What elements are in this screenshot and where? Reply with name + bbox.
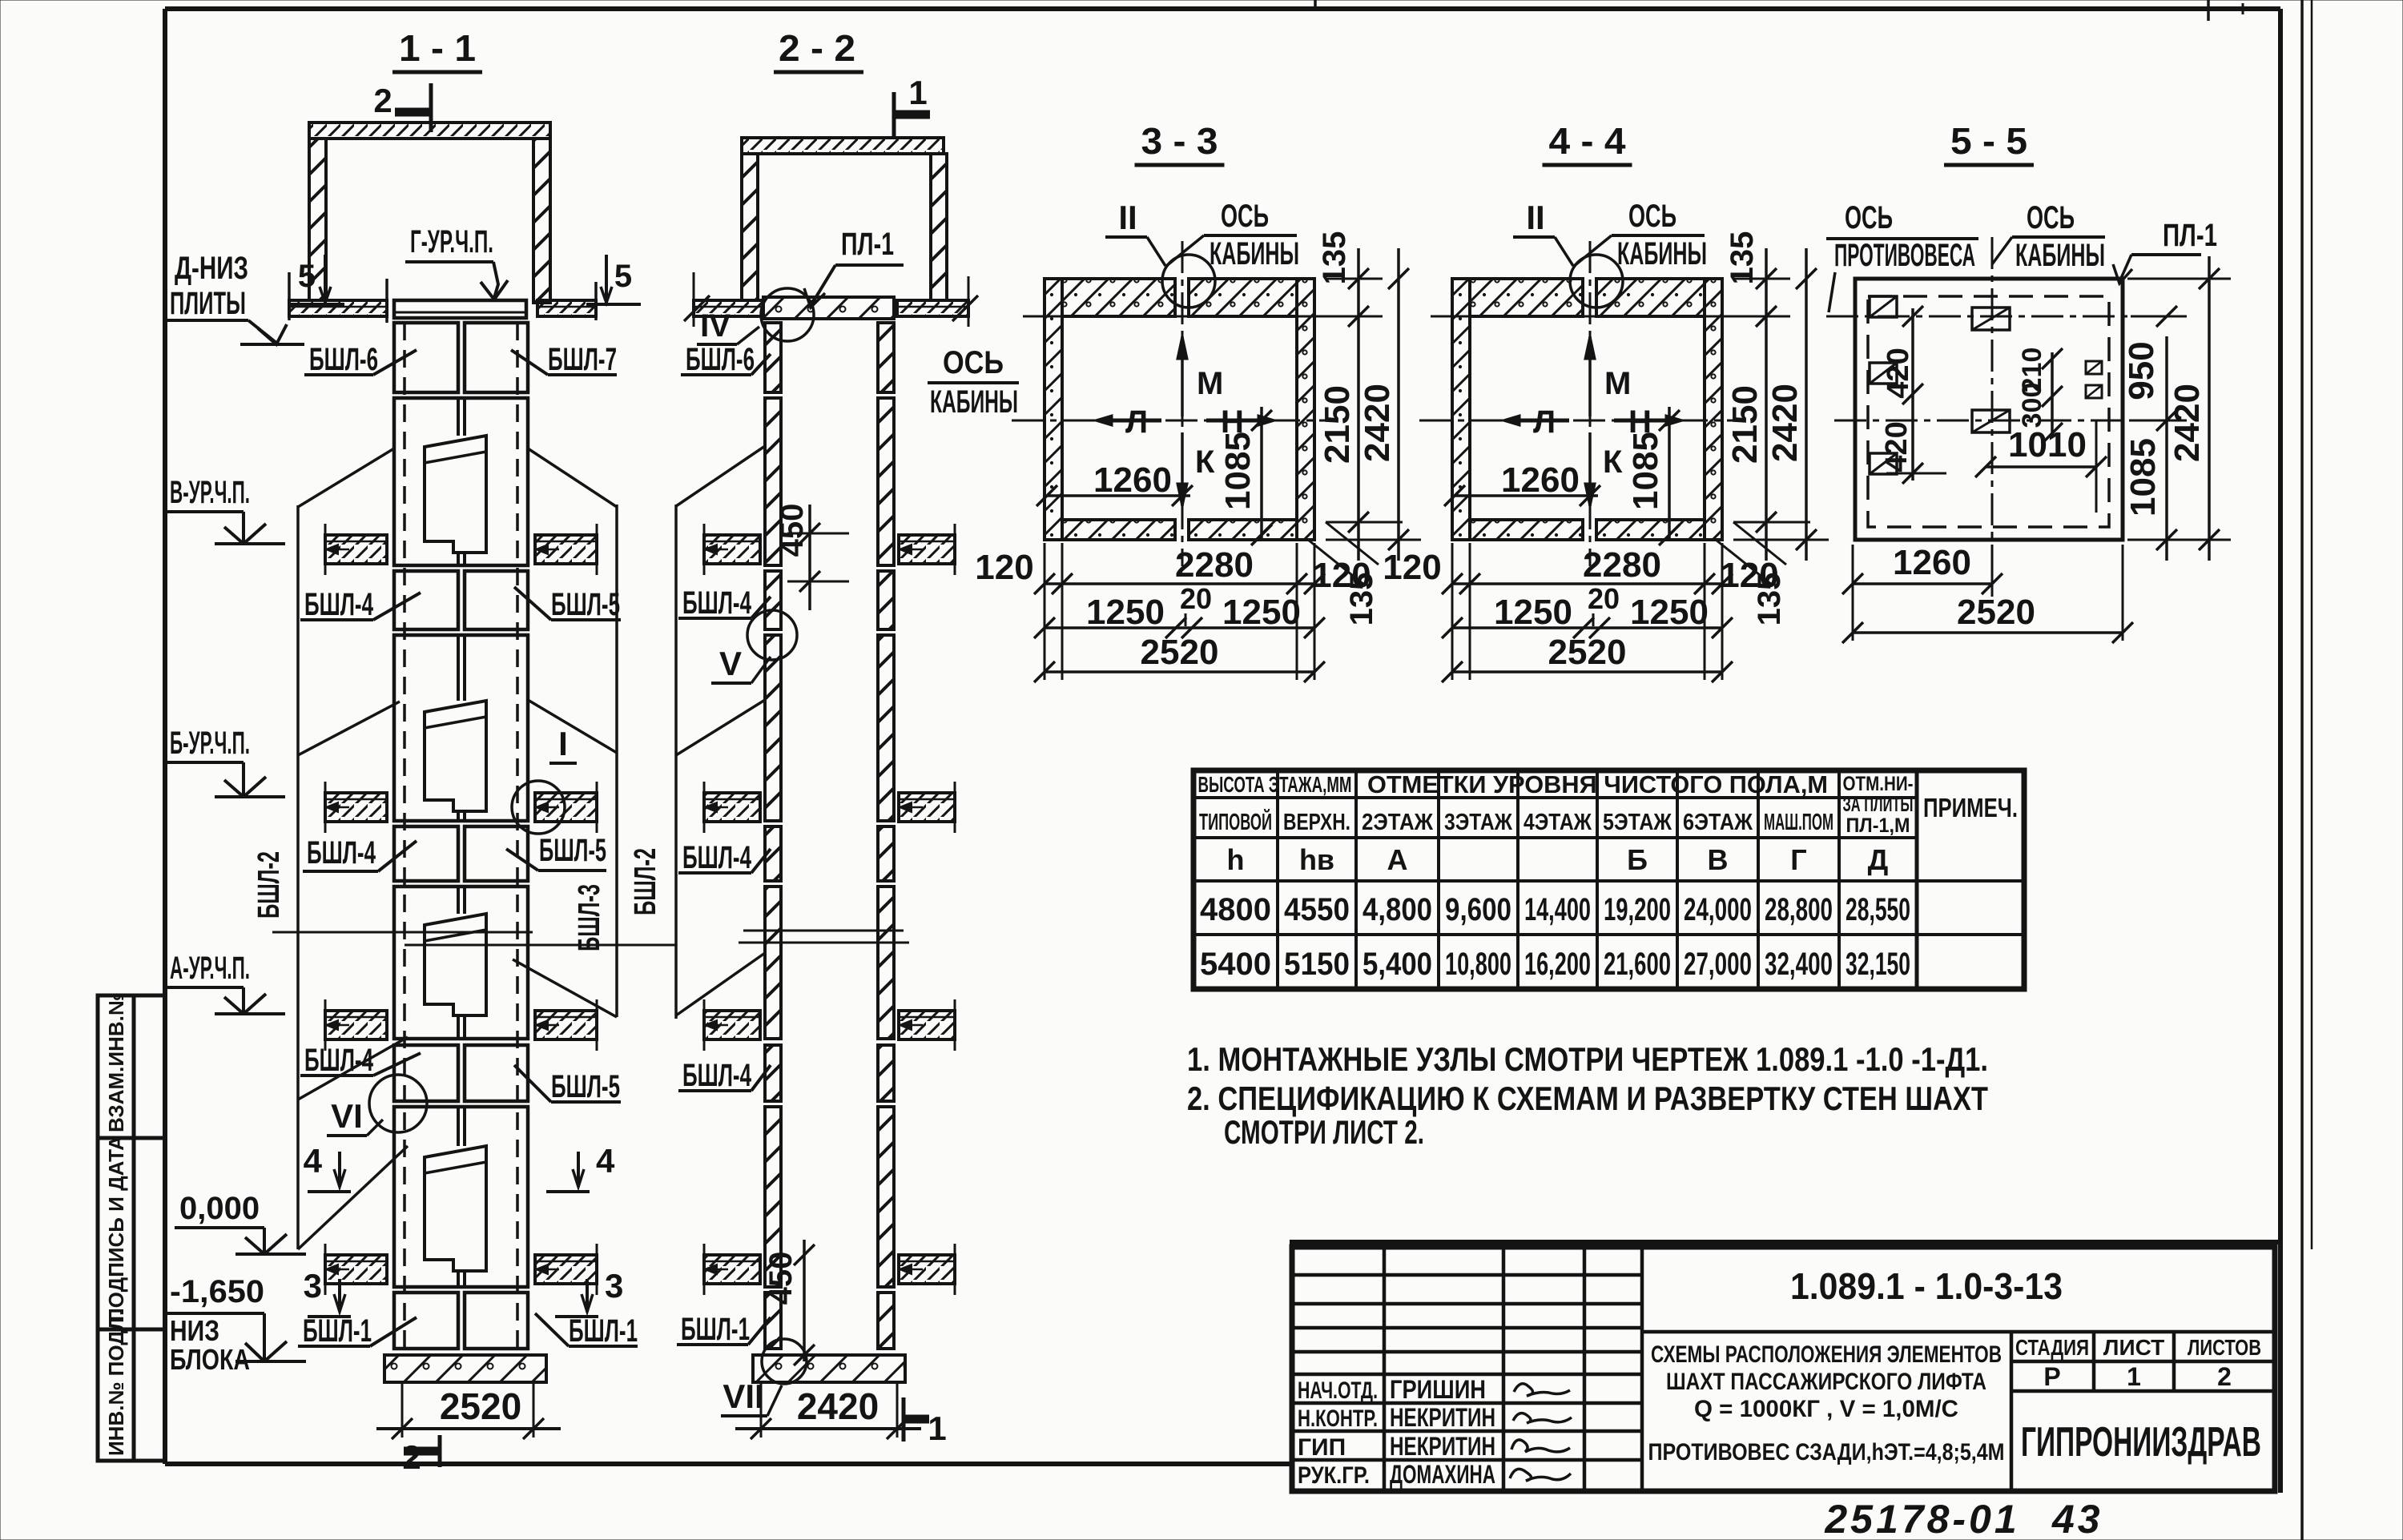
svg-text:В: В <box>1708 843 1729 876</box>
svg-text:БШЛ-1: БШЛ-1 <box>303 1313 372 1349</box>
svg-text:ГРИШИН: ГРИШИН <box>1390 1375 1486 1404</box>
svg-text:32,150: 32,150 <box>1846 947 1910 982</box>
svg-text:5,400: 5,400 <box>1363 947 1432 982</box>
svg-text:М: М <box>1604 366 1631 401</box>
svg-text:2ЭТАЖ: 2ЭТАЖ <box>1362 810 1434 835</box>
svg-text:5: 5 <box>614 259 632 294</box>
svg-text:ОСЬ: ОСЬ <box>1221 199 1269 234</box>
svg-text:3: 3 <box>304 1267 322 1305</box>
svg-text:БШЛ-4: БШЛ-4 <box>682 1058 751 1093</box>
svg-text:БШЛ-2: БШЛ-2 <box>629 848 662 915</box>
svg-text:4 - 4: 4 - 4 <box>1549 120 1626 162</box>
svg-text:ОСЬ: ОСЬ <box>1845 200 1893 235</box>
svg-text:1: 1 <box>908 74 927 111</box>
svg-text:ОСЬ: ОСЬ <box>943 345 1004 380</box>
svg-text:Н.КОНТР.: Н.КОНТР. <box>1298 1405 1378 1432</box>
svg-text:БШЛ-5: БШЛ-5 <box>539 833 606 868</box>
svg-text:28,800: 28,800 <box>1765 892 1833 927</box>
svg-text:БШЛ-4: БШЛ-4 <box>304 587 373 622</box>
svg-text:9,600: 9,600 <box>1445 892 1511 927</box>
svg-text:120: 120 <box>975 548 1033 587</box>
svg-text:СХЕМЫ РАСПОЛОЖЕНИЯ ЭЛЕМЕНТОВ: СХЕМЫ РАСПОЛОЖЕНИЯ ЭЛЕМЕНТОВ <box>1651 1341 2002 1368</box>
svg-text:hв: hв <box>1299 843 1334 876</box>
svg-text:5ЭТАЖ: 5ЭТАЖ <box>1603 810 1672 835</box>
svg-text:3 - 3: 3 - 3 <box>1141 120 1218 162</box>
svg-text:1260: 1260 <box>1093 460 1172 500</box>
svg-text:21,600: 21,600 <box>1604 947 1671 982</box>
svg-text:1250: 1250 <box>1086 593 1165 632</box>
svg-text:А-УР.Ч.П.: А-УР.Ч.П. <box>170 951 250 986</box>
svg-text:К: К <box>1195 444 1215 480</box>
svg-text:4: 4 <box>596 1142 615 1180</box>
svg-text:ПЛ-1: ПЛ-1 <box>841 227 894 262</box>
svg-text:1260: 1260 <box>1501 460 1580 500</box>
svg-text:2: 2 <box>402 1438 421 1476</box>
svg-text:1010: 1010 <box>2008 425 2087 464</box>
svg-text:БШЛ-1: БШЛ-1 <box>681 1312 750 1347</box>
svg-text:Д: Д <box>1868 843 1889 876</box>
svg-text:2: 2 <box>2217 1362 2232 1391</box>
svg-text:ЛИСТ: ЛИСТ <box>2103 1335 2164 1360</box>
svg-text:КАБИНЫ: КАБИНЫ <box>2015 238 2105 273</box>
svg-text:2520: 2520 <box>1957 593 2035 632</box>
svg-text:ПЛИТЫ: ПЛИТЫ <box>170 286 246 321</box>
svg-text:КАБИНЫ: КАБИНЫ <box>1617 236 1707 271</box>
svg-text:Р: Р <box>2043 1362 2060 1391</box>
svg-text:2420: 2420 <box>1765 384 1805 462</box>
svg-text:VII: VII <box>723 1377 763 1415</box>
svg-text:2280: 2280 <box>1583 545 1661 585</box>
svg-text:1: 1 <box>2127 1362 2141 1391</box>
svg-text:1085: 1085 <box>1218 432 1258 510</box>
svg-text:2520: 2520 <box>1548 633 1627 672</box>
svg-text:1 - 1: 1 - 1 <box>399 27 476 69</box>
svg-text:4800: 4800 <box>1200 892 1271 927</box>
svg-text:II: II <box>1118 199 1137 236</box>
svg-text:ТИПОВОЙ: ТИПОВОЙ <box>1199 808 1272 835</box>
svg-text:2: 2 <box>373 82 392 119</box>
svg-text:МАШ.ПОМ: МАШ.ПОМ <box>1764 810 1833 835</box>
svg-text:ВЫСОТА ЭТАЖА,ММ: ВЫСОТА ЭТАЖА,ММ <box>1198 772 1352 797</box>
svg-text:БШЛ-6: БШЛ-6 <box>309 342 378 377</box>
svg-text:h: h <box>1227 843 1245 876</box>
svg-text:19,200: 19,200 <box>1604 892 1671 927</box>
svg-text:2280: 2280 <box>1175 545 1254 585</box>
svg-text:25178-01: 25178-01 <box>1824 1497 2019 1540</box>
svg-text:1250: 1250 <box>1494 593 1572 632</box>
svg-text:Б-УР.Ч.П.: Б-УР.Ч.П. <box>170 726 250 761</box>
svg-text:1085: 1085 <box>2123 438 2163 517</box>
svg-text:КАБИНЫ: КАБИНЫ <box>1210 236 1299 271</box>
svg-text:0,000: 0,000 <box>179 1191 260 1226</box>
svg-text:ГИП: ГИП <box>1298 1434 1346 1461</box>
svg-text:ПЛ-1,М: ПЛ-1,М <box>1846 814 1910 837</box>
svg-text:2150: 2150 <box>1318 385 1357 464</box>
svg-text:1.089.1 - 1.0-3-13: 1.089.1 - 1.0-3-13 <box>1790 1265 2063 1307</box>
svg-text:1: 1 <box>928 1409 946 1447</box>
svg-text:24,000: 24,000 <box>1684 892 1752 927</box>
svg-text:БШЛ-3: БШЛ-3 <box>573 884 606 951</box>
svg-text:БШЛ-1: БШЛ-1 <box>569 1313 638 1349</box>
svg-text:27,000: 27,000 <box>1684 947 1752 982</box>
svg-text:1085: 1085 <box>1626 432 1665 510</box>
svg-text:5: 5 <box>298 259 316 294</box>
svg-text:V: V <box>719 645 742 682</box>
svg-text:Б: Б <box>1627 843 1648 876</box>
svg-text:ОТМЕТКИ УРОВНЯ ЧИСТОГО ПОЛА,М: ОТМЕТКИ УРОВНЯ ЧИСТОГО ПОЛА,М <box>1367 770 1828 798</box>
svg-text:СМОТРИ ЛИСТ 2.: СМОТРИ ЛИСТ 2. <box>1224 1113 1424 1151</box>
svg-text:135: 135 <box>1725 231 1760 285</box>
svg-text:СТАДИЯ: СТАДИЯ <box>2015 1335 2089 1360</box>
svg-text:ПОДПИСЬ И ДАТА: ПОДПИСЬ И ДАТА <box>104 1136 128 1323</box>
svg-text:2 - 2: 2 - 2 <box>779 27 855 69</box>
svg-text:ОТМ.НИ-: ОТМ.НИ- <box>1843 773 1914 795</box>
svg-text:Г: Г <box>1790 843 1806 876</box>
svg-text:ПРОТИВОВЕС СЗАДИ,hЭТ.=4,8;5,4М: ПРОТИВОВЕС СЗАДИ,hЭТ.=4,8;5,4М <box>1648 1439 2005 1466</box>
svg-text:2420: 2420 <box>2168 384 2207 462</box>
svg-text:ПРИМЕЧ.: ПРИМЕЧ. <box>1923 793 2018 822</box>
svg-text:28,550: 28,550 <box>1846 892 1910 927</box>
svg-text:450: 450 <box>763 1252 799 1305</box>
svg-text:БШЛ-7: БШЛ-7 <box>548 342 617 377</box>
svg-text:120: 120 <box>1720 556 1778 595</box>
svg-text:20: 20 <box>1588 582 1620 615</box>
svg-text:ПРОТИВОВЕСА: ПРОТИВОВЕСА <box>1834 238 1975 273</box>
svg-text:2150: 2150 <box>1725 385 1765 464</box>
svg-text:IV: IV <box>700 308 731 344</box>
svg-text:VI: VI <box>331 1097 363 1135</box>
svg-text:20: 20 <box>1180 582 1212 615</box>
svg-text:-1,650: -1,650 <box>170 1274 264 1309</box>
svg-text:ЛИСТОВ: ЛИСТОВ <box>2188 1335 2261 1360</box>
svg-text:4ЭТАЖ: 4ЭТАЖ <box>1524 810 1592 835</box>
svg-text:В-УР.Ч.П.: В-УР.Ч.П. <box>170 475 250 510</box>
svg-text:БШЛ-4: БШЛ-4 <box>682 585 751 621</box>
svg-text:10,800: 10,800 <box>1445 947 1511 982</box>
svg-text:БЛОКА: БЛОКА <box>170 1343 250 1376</box>
svg-text:2520: 2520 <box>440 1385 521 1427</box>
svg-text:5 - 5: 5 - 5 <box>1950 120 2027 162</box>
svg-text:16,200: 16,200 <box>1524 947 1591 982</box>
svg-text:6ЭТАЖ: 6ЭТАЖ <box>1683 810 1753 835</box>
svg-text:3: 3 <box>605 1267 623 1305</box>
svg-text:Д-НИЗ: Д-НИЗ <box>175 251 248 286</box>
svg-text:БШЛ-4: БШЛ-4 <box>304 1043 373 1078</box>
svg-text:3ЭТАЖ: 3ЭТАЖ <box>1444 810 1513 835</box>
svg-text:950: 950 <box>2122 341 2161 400</box>
svg-text:РУК.ГР.: РУК.ГР. <box>1298 1462 1370 1489</box>
svg-text:120: 120 <box>1312 556 1371 595</box>
svg-text:5150: 5150 <box>1284 947 1350 982</box>
svg-text:43: 43 <box>2051 1497 2103 1540</box>
svg-text:420: 420 <box>1880 421 1914 472</box>
svg-text:КАБИНЫ: КАБИНЫ <box>930 384 1018 420</box>
svg-text:НЕКРИТИН: НЕКРИТИН <box>1390 1432 1495 1461</box>
svg-text:ШАХТ ПАССАЖИРСКОГО ЛИФТА: ШАХТ ПАССАЖИРСКОГО ЛИФТА <box>1666 1369 1986 1395</box>
svg-text:I: I <box>558 725 568 762</box>
svg-text:БШЛ-2: БШЛ-2 <box>252 851 286 919</box>
svg-text:Г-УР.Ч.П.: Г-УР.Ч.П. <box>410 224 493 259</box>
svg-text:К: К <box>1603 444 1623 480</box>
svg-text:1250: 1250 <box>1630 593 1709 632</box>
svg-text:135: 135 <box>1317 231 1352 285</box>
svg-text:2520: 2520 <box>1141 633 1219 672</box>
svg-text:НАЧ.ОТД.: НАЧ.ОТД. <box>1298 1377 1378 1404</box>
svg-text:М: М <box>1197 366 1223 401</box>
svg-text:300: 300 <box>2017 383 2047 428</box>
svg-text:ОСЬ: ОСЬ <box>1628 199 1676 234</box>
svg-text:450: 450 <box>775 504 810 557</box>
svg-text:2420: 2420 <box>1358 384 1397 462</box>
svg-text:НЕКРИТИН: НЕКРИТИН <box>1390 1403 1495 1432</box>
svg-text:1260: 1260 <box>1893 543 1971 582</box>
svg-text:НИЗ: НИЗ <box>170 1314 219 1347</box>
svg-text:ПЛ-1: ПЛ-1 <box>2163 218 2217 253</box>
svg-text:5400: 5400 <box>1200 947 1271 982</box>
svg-text:БШЛ-4: БШЛ-4 <box>682 840 751 875</box>
svg-text:БШЛ-4: БШЛ-4 <box>307 835 376 871</box>
svg-text:ИНВ.№ ПОДЛ.: ИНВ.№ ПОДЛ. <box>104 1310 128 1456</box>
svg-text:II: II <box>1526 199 1544 236</box>
svg-text:Q = 1000КГ , V = 1,0М/С: Q = 1000КГ , V = 1,0М/С <box>1694 1396 1958 1422</box>
svg-text:4: 4 <box>304 1142 323 1180</box>
svg-text:120: 120 <box>1383 548 1441 587</box>
svg-text:БШЛ-6: БШЛ-6 <box>686 342 755 377</box>
svg-text:ДОМАХИНА: ДОМАХИНА <box>1390 1460 1495 1489</box>
svg-text:ОСЬ: ОСЬ <box>2027 200 2075 235</box>
svg-text:4550: 4550 <box>1284 892 1350 927</box>
svg-text:4,800: 4,800 <box>1363 892 1432 927</box>
svg-text:420: 420 <box>1882 348 1915 398</box>
svg-text:2420: 2420 <box>797 1385 879 1427</box>
svg-text:1. МОНТАЖНЫЕ УЗЛЫ СМОТРИ Ч: 1. МОНТАЖНЫЕ УЗЛЫ СМОТРИ ЧЕРТЕЖ 1.089.1 … <box>1187 1040 1988 1078</box>
svg-text:А: А <box>1387 843 1408 876</box>
svg-text:БШЛ-5: БШЛ-5 <box>551 1069 620 1104</box>
svg-text:ЗА ПЛИТЫ: ЗА ПЛИТЫ <box>1843 794 1914 816</box>
svg-text:32,400: 32,400 <box>1765 947 1833 982</box>
svg-text:14,400: 14,400 <box>1524 892 1591 927</box>
svg-text:ГИПРОНИИЗДРАВ: ГИПРОНИИЗДРАВ <box>2021 1419 2261 1466</box>
svg-text:БШЛ-5: БШЛ-5 <box>551 587 620 622</box>
svg-text:2. СПЕЦИФИКАЦИЮ К СХЕМАМ И: 2. СПЕЦИФИКАЦИЮ К СХЕМАМ И РАЗВЕРТКУ СТЕ… <box>1187 1080 1988 1117</box>
svg-text:ВЗАМ.ИНВ.№: ВЗАМ.ИНВ.№ <box>104 992 128 1132</box>
svg-text:ВЕРХН.: ВЕРХН. <box>1283 810 1350 835</box>
svg-text:1250: 1250 <box>1222 593 1301 632</box>
